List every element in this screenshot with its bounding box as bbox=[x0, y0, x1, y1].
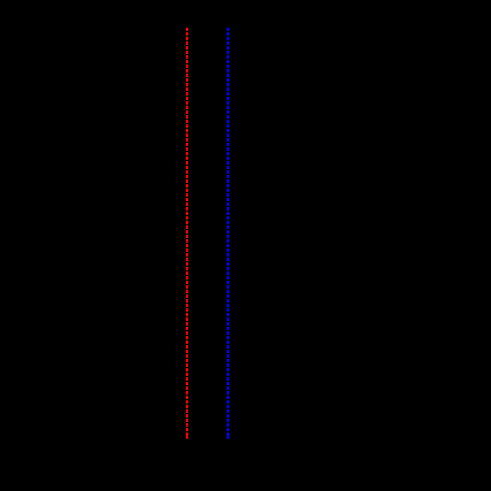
blue dashed vertical line (right marker) bbox=[227, 28, 229, 434]
blue line final long dash bbox=[227, 433, 229, 439]
red dashed vertical line (left marker) bbox=[186, 28, 188, 434]
red line final long dash bbox=[186, 433, 188, 439]
